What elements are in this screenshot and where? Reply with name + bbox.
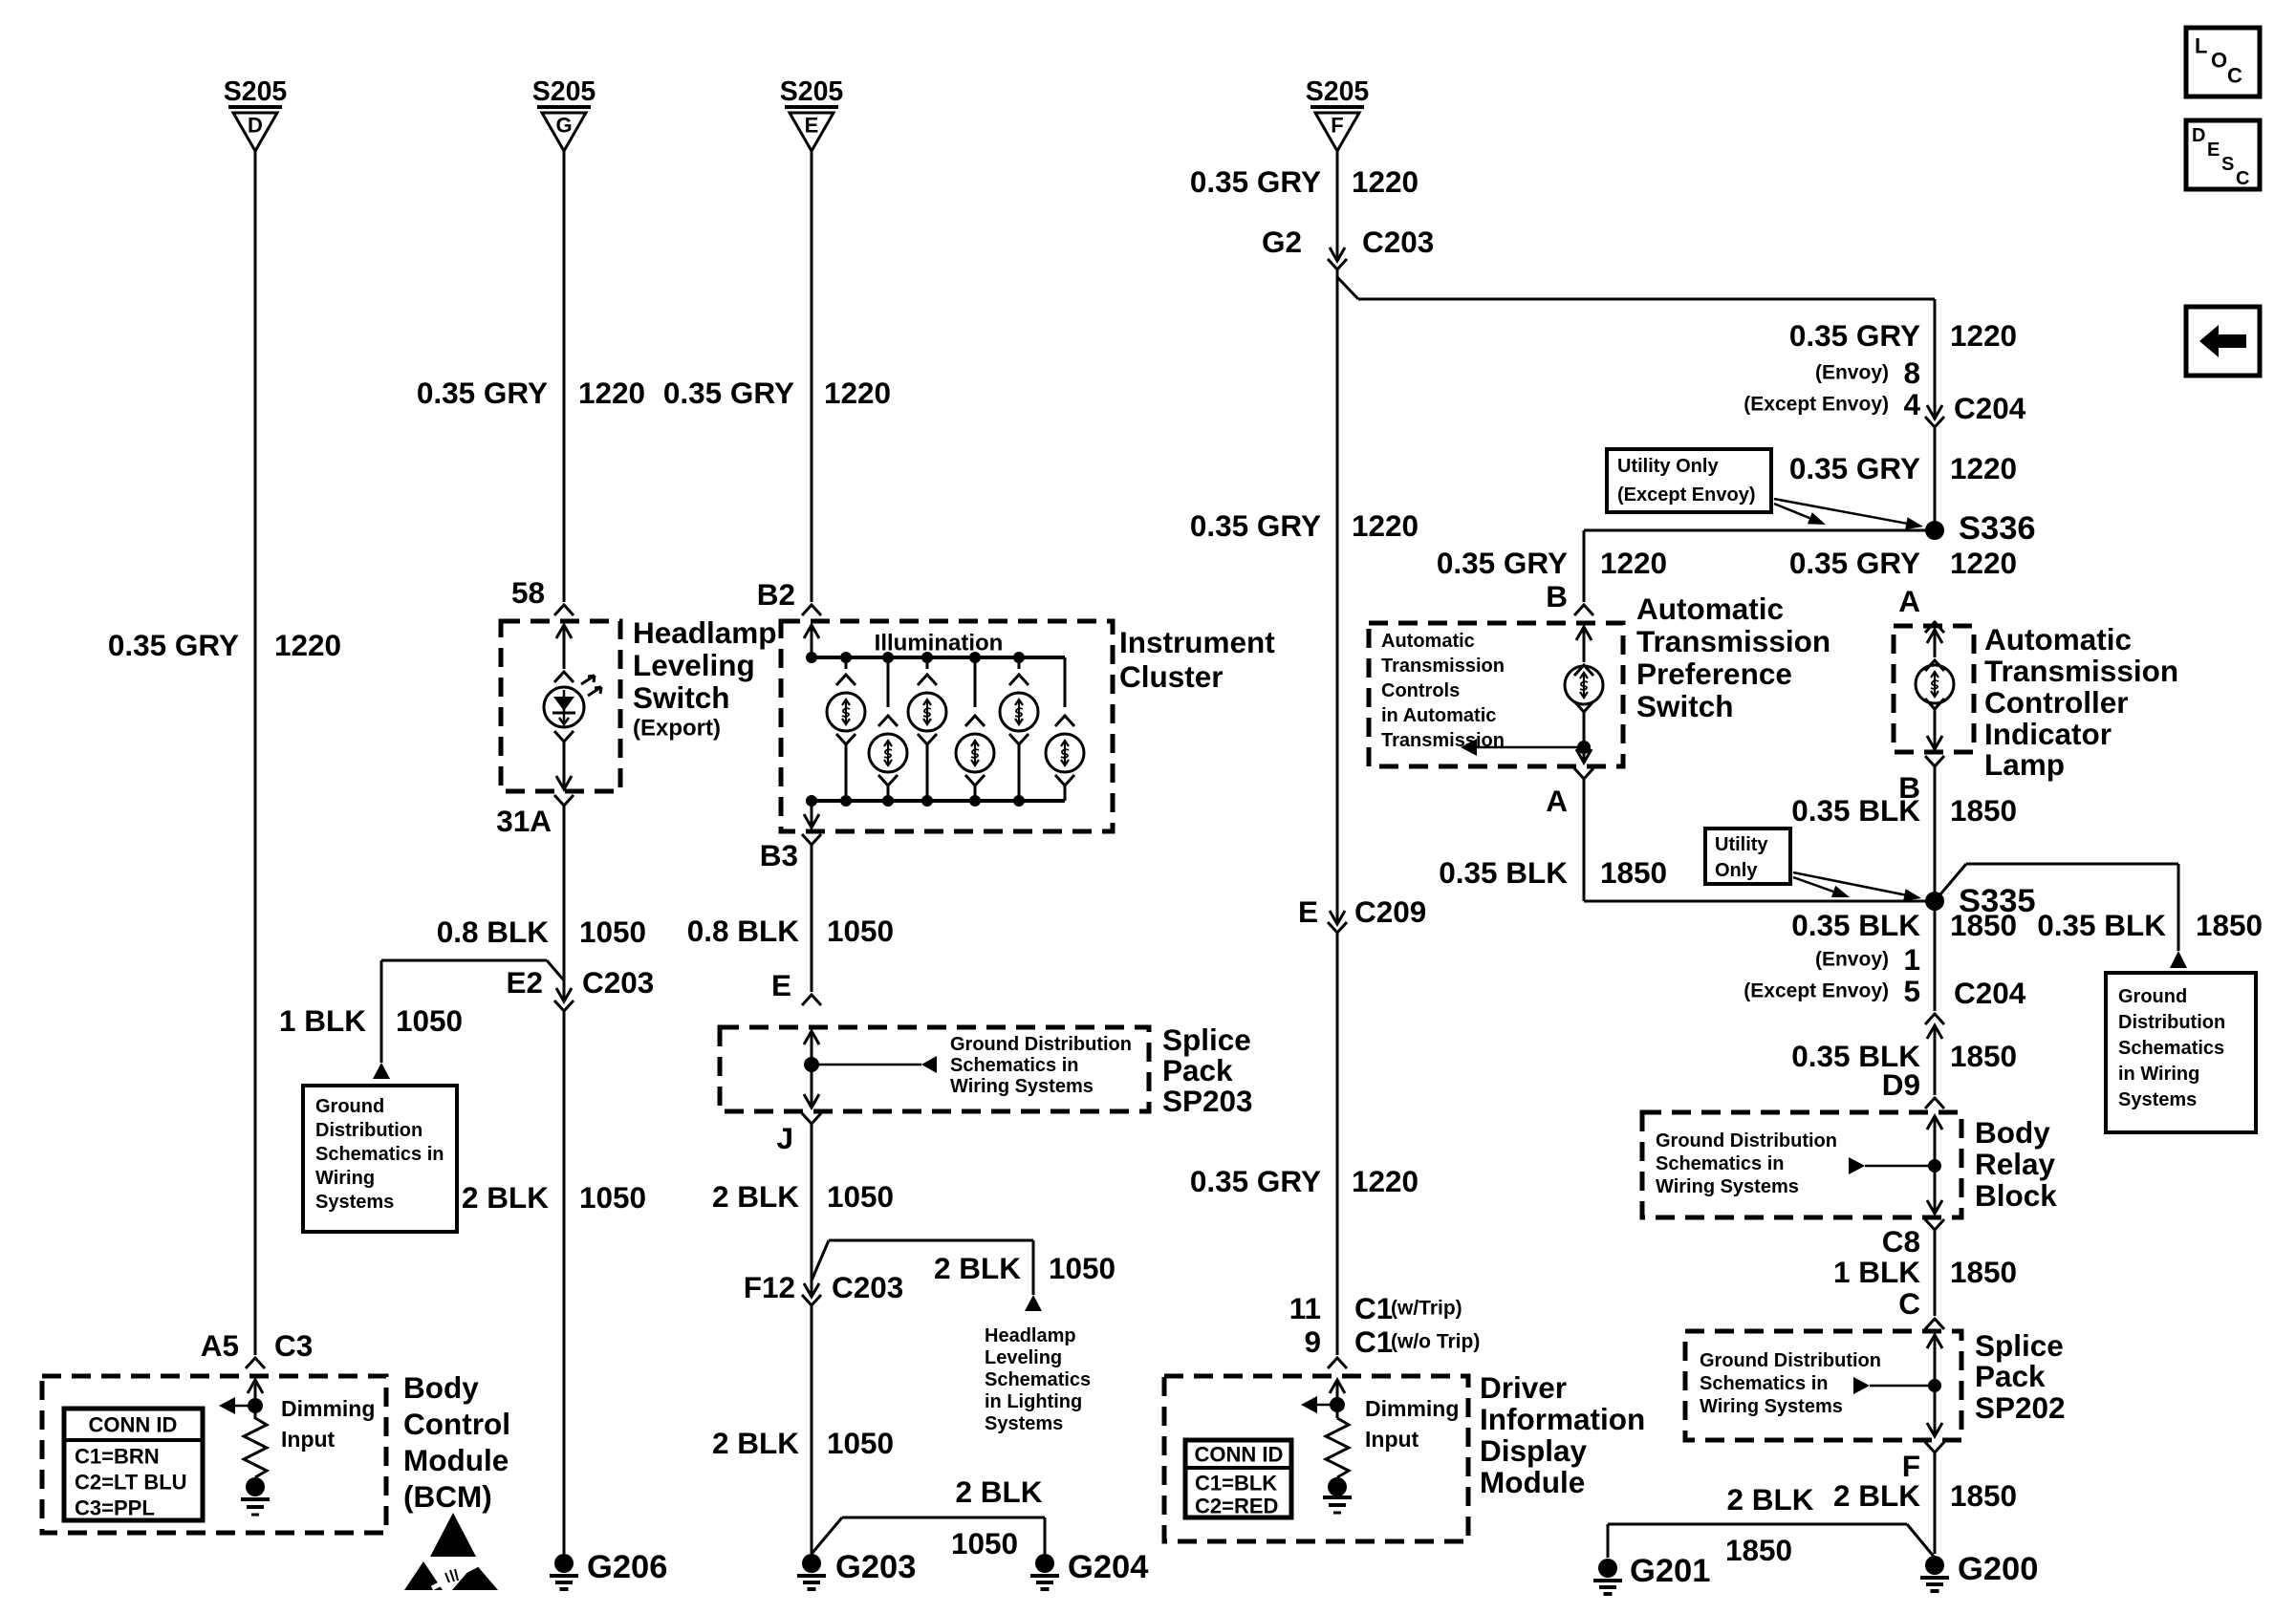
internal ground (DID) — [1328, 1477, 1347, 1496]
wire S336 to preference switch — [1584, 529, 1935, 532]
svg-text:1220: 1220 — [1950, 451, 2017, 485]
svg-text:Dimming: Dimming — [1365, 1396, 1459, 1421]
svg-text:0.35 BLK: 0.35 BLK — [2037, 908, 2166, 942]
svg-text:Schematics in: Schematics in — [950, 1055, 1079, 1076]
svg-text:0.35 GRY: 0.35 GRY — [1437, 546, 1568, 580]
svg-text:Transmission: Transmission — [1984, 654, 2178, 688]
wire branch G203 to G204 — [812, 1517, 842, 1554]
wire C204 to body relay block 0.35 BLK 1850 — [1934, 1025, 1937, 1095]
svg-text:1050: 1050 — [827, 1179, 894, 1214]
resistor dimming input (BCM) — [244, 1418, 267, 1477]
svg-text:Wiring Systems: Wiring Systems — [950, 1076, 1094, 1097]
note box Utility Only (Except Envoy) — [1607, 449, 1771, 512]
svg-text:Ground Distribution: Ground Distribution — [1700, 1350, 1881, 1371]
svg-text:Display: Display — [1480, 1433, 1588, 1468]
svg-text:C3: C3 — [274, 1328, 313, 1363]
junction dot cluster bottom bus x885 — [840, 795, 852, 807]
component box Automatic Transmission Controller Indicator Lamp — [1894, 626, 1974, 752]
connector chevron at BCM entry — [246, 1358, 265, 1368]
wire branch G201 to G200 — [1608, 1523, 1907, 1526]
svg-text:G: G — [555, 114, 572, 138]
svg-text:1220: 1220 — [824, 376, 891, 410]
svg-text:Only: Only — [1715, 860, 1758, 881]
svg-text:CONN ID: CONN ID — [89, 1413, 178, 1437]
svg-text:Automatic: Automatic — [1636, 592, 1784, 626]
reference box Ground Distribution Schematics in Wiring Systems (G branch) — [303, 1086, 457, 1232]
svg-text:Splice: Splice — [1162, 1022, 1251, 1057]
wire headlamp switch internal upper — [563, 625, 566, 669]
svg-text:2 BLK: 2 BLK — [712, 1179, 799, 1214]
wire S335 branch to ground distribution reference — [1935, 864, 1966, 901]
svg-text:Wiring Systems: Wiring Systems — [1656, 1176, 1799, 1197]
wire G column 2 BLK 1050 — [563, 1011, 566, 1554]
svg-text:0.8 BLK: 0.8 BLK — [687, 914, 800, 948]
connector chevron pin F (SP202) — [1925, 1442, 1944, 1453]
svg-text:2 BLK: 2 BLK — [462, 1180, 549, 1215]
svg-text:Ground Distribution: Ground Distribution — [950, 1034, 1132, 1055]
svg-text:Indicator: Indicator — [1984, 717, 2112, 751]
svg-text:Schematics in: Schematics in — [1700, 1373, 1829, 1394]
svg-text:2 BLK: 2 BLK — [1726, 1482, 1813, 1517]
svg-text:Controller: Controller — [1984, 685, 2129, 720]
in-line connector C203 (G column) — [556, 988, 572, 1001]
svg-text:Systems: Systems — [315, 1192, 394, 1213]
reference arrow ground distribution (SP202) — [1853, 1377, 1870, 1394]
svg-text:2 BLK: 2 BLK — [934, 1251, 1021, 1285]
svg-text:Pack: Pack — [1975, 1359, 2046, 1393]
svg-text:0.35 BLK: 0.35 BLK — [1791, 793, 1920, 828]
svg-text:CONN ID: CONN ID — [1195, 1443, 1284, 1467]
svg-text:G200: G200 — [1958, 1551, 2038, 1587]
component box Body Relay Block — [1642, 1112, 1961, 1217]
svg-text:Transmission: Transmission — [1636, 624, 1830, 658]
legend box back-arrow — [2186, 307, 2260, 376]
svg-text:11: 11 — [1289, 1291, 1321, 1325]
connector chevron pin J — [802, 1113, 821, 1124]
junction dot cluster top bus x929 — [882, 652, 894, 663]
connector chevron pin B3 — [802, 834, 821, 845]
connector chevron pin A (indicator lamp) — [1925, 622, 1944, 633]
illumination lamp 2 (low) — [887, 657, 890, 707]
svg-text:1 BLK: 1 BLK — [279, 1003, 366, 1038]
wire F column lower 0.35 GRY 1220 — [1336, 933, 1339, 1355]
svg-text:1850: 1850 — [1950, 908, 2017, 942]
svg-text:1850: 1850 — [1950, 793, 2017, 828]
wire S335 down 0.35 BLK 1850 — [1934, 901, 1937, 1011]
svg-text:E: E — [771, 968, 791, 1002]
wire indicator lamp to S335 0.35 BLK 1850 — [1934, 764, 1937, 901]
svg-text:1220: 1220 — [1352, 164, 1419, 199]
svg-text:Illumination: Illumination — [875, 631, 1004, 656]
illumination lamp 4 (low) — [974, 657, 977, 707]
svg-text:E: E — [2207, 140, 2220, 161]
svg-text:C203: C203 — [582, 965, 654, 1000]
svg-text:in Automatic: in Automatic — [1381, 705, 1496, 726]
svg-text:(w/Trip): (w/Trip) — [1391, 1298, 1462, 1320]
svg-text:C1: C1 — [1354, 1324, 1393, 1359]
svg-text:58: 58 — [511, 575, 545, 610]
splice pack box SP203 — [720, 1027, 1149, 1111]
ground G203 — [797, 1554, 826, 1589]
svg-text:C: C — [2227, 64, 2242, 88]
legend box LOC — [2186, 28, 2260, 97]
svg-text:J: J — [776, 1121, 793, 1155]
svg-text:1850: 1850 — [1725, 1533, 1792, 1567]
svg-text:Headlamp: Headlamp — [985, 1325, 1076, 1346]
wire preference switch to S335 — [1583, 779, 1586, 901]
connector chevron at DID entry — [1328, 1358, 1347, 1368]
ground G206 — [550, 1554, 578, 1589]
svg-text:1: 1 — [1903, 942, 1920, 977]
wire body relay to SP202 1 BLK 1850 — [1934, 1230, 1937, 1316]
connector chevron pin B (indicator lamp) — [1925, 756, 1944, 766]
svg-text:Input: Input — [1365, 1427, 1419, 1452]
svg-text:E2: E2 — [506, 965, 543, 1000]
lamp preference switch — [1565, 666, 1603, 704]
svg-text:Automatic: Automatic — [1984, 622, 2132, 656]
svg-text:Switch: Switch — [633, 680, 730, 715]
wire BCM internal dimming input — [254, 1380, 257, 1419]
svg-text:Schematics: Schematics — [985, 1369, 1091, 1390]
svg-text:Distribution: Distribution — [315, 1120, 422, 1141]
wire D column 0.35 GRY 1220 — [254, 151, 257, 1355]
svg-text:Wiring Systems: Wiring Systems — [1700, 1396, 1843, 1417]
illumination lamp 3 (high) — [926, 657, 929, 669]
wire headlamp switch internal lower — [554, 731, 574, 742]
ground G201 — [1593, 1559, 1622, 1594]
svg-text:1850: 1850 — [1950, 1478, 2017, 1513]
svg-text:(Envoy): (Envoy) — [1815, 362, 1889, 384]
internal ground (BCM) — [246, 1477, 265, 1496]
wire cluster feed — [811, 625, 813, 657]
svg-text:G204: G204 — [1068, 1549, 1148, 1585]
svg-text:Ground Distribution: Ground Distribution — [1656, 1130, 1837, 1151]
svg-text:0.8 BLK: 0.8 BLK — [437, 915, 550, 949]
svg-text:1050: 1050 — [396, 1003, 463, 1038]
svg-text:Body: Body — [1975, 1115, 2050, 1150]
svg-text:Dimming: Dimming — [281, 1396, 375, 1421]
wire E column 2 BLK 1050 upper — [811, 1124, 813, 1295]
svg-text:Utility Only: Utility Only — [1617, 456, 1719, 477]
svg-text:(Except Envoy): (Except Envoy) — [1744, 394, 1889, 416]
table CONN ID (BCM) — [64, 1409, 203, 1520]
resistor dimming input (DID) — [1326, 1418, 1349, 1477]
svg-text:1050: 1050 — [827, 1426, 894, 1460]
svg-text:0.35 GRY: 0.35 GRY — [1789, 546, 1920, 580]
junction dot body relay — [1928, 1159, 1941, 1173]
svg-text:SP203: SP203 — [1162, 1084, 1253, 1118]
component box Automatic Transmission Preference Switch — [1369, 623, 1623, 766]
dimming input direction arrow (BCM) — [235, 1405, 255, 1408]
LED symbol headlamp leveling switch — [544, 687, 584, 727]
junction dot preference switch output — [1577, 741, 1591, 754]
svg-text:5: 5 — [1903, 974, 1920, 1008]
wire SP202 to ground G200 2 BLK 1850 — [1934, 1453, 1937, 1554]
svg-text:1220: 1220 — [1352, 508, 1419, 543]
svg-text:Switch: Switch — [1636, 689, 1734, 723]
in-line connector C204 (lower) — [1925, 1014, 1944, 1024]
illumination lamp 1 (high) — [845, 657, 848, 669]
svg-text:Control: Control — [403, 1407, 510, 1441]
junction dot cluster bottom bus x1020 — [969, 795, 981, 807]
light arrows on LED — [581, 676, 595, 684]
module box Body Control Module (BCM) — [42, 1376, 386, 1533]
splice S335 — [1925, 892, 1944, 911]
svg-text:C203: C203 — [1362, 225, 1434, 259]
connector chevron pin D9 — [1925, 1098, 1944, 1108]
svg-text:1850: 1850 — [1600, 855, 1667, 890]
node dimming input junction (BCM) — [248, 1398, 263, 1413]
connector chevron pin 31A — [554, 795, 574, 806]
junction dot SP203 — [804, 1057, 819, 1072]
svg-text:0.35 GRY: 0.35 GRY — [663, 376, 794, 410]
svg-text:1220: 1220 — [274, 628, 341, 662]
svg-text:F: F — [1331, 114, 1343, 138]
svg-text:1 BLK: 1 BLK — [1833, 1255, 1920, 1289]
svg-text:0.35 GRY: 0.35 GRY — [108, 628, 239, 662]
svg-text:B2: B2 — [757, 577, 795, 612]
svg-text:1220: 1220 — [578, 376, 645, 410]
junction dot cluster bottom bus x1066 — [1013, 795, 1025, 807]
svg-text:(Export): (Export) — [633, 716, 721, 742]
wire preference switch internal lower — [1574, 701, 1593, 712]
connector chevron pin A (preference switch) — [1574, 768, 1593, 779]
svg-text:(Except Envoy): (Except Envoy) — [1744, 980, 1889, 1002]
svg-text:Schematics in: Schematics in — [1656, 1153, 1785, 1174]
in-line connector C209 (F column) — [1330, 911, 1345, 924]
svg-text:0.35 GRY: 0.35 GRY — [1789, 318, 1920, 353]
svg-text:Headlamp: Headlamp — [633, 615, 777, 650]
svg-text:Information: Information — [1480, 1402, 1645, 1436]
svg-text:1050: 1050 — [827, 914, 894, 948]
wire G column upper 0.35 GRY 1220 — [563, 151, 566, 602]
svg-text:0.35 BLK: 0.35 BLK — [1439, 855, 1568, 890]
splice connector S205 triangle D — [228, 107, 282, 151]
svg-text:1850: 1850 — [1950, 1255, 2017, 1289]
wire indicator lamp internal lower — [1925, 699, 1944, 709]
svg-text:O: O — [2211, 49, 2227, 73]
svg-text:D: D — [248, 114, 263, 138]
connector chevron pin 58 — [554, 605, 574, 615]
wire indicator lamp internal upper — [1934, 630, 1937, 657]
ground G204 — [1030, 1554, 1059, 1589]
svg-text:1220: 1220 — [1600, 546, 1667, 580]
svg-text:G206: G206 — [587, 1549, 667, 1585]
svg-text:Ground: Ground — [315, 1096, 384, 1117]
svg-text:A: A — [1898, 584, 1920, 618]
svg-text:S: S — [2221, 154, 2234, 175]
svg-text:C2=RED: C2=RED — [1195, 1495, 1278, 1518]
svg-text:Module: Module — [1480, 1465, 1585, 1499]
wire branch to headlamp leveling reference — [812, 1240, 829, 1280]
wire body relay internal — [1934, 1116, 1937, 1214]
svg-text:(Envoy): (Envoy) — [1815, 949, 1889, 971]
svg-text:Lamp: Lamp — [1984, 747, 2065, 782]
svg-text:S205: S205 — [532, 76, 596, 107]
svg-text:A: A — [1546, 784, 1568, 818]
svg-text:31A: 31A — [496, 804, 552, 838]
connector chevron pin B (preference switch) — [1574, 605, 1593, 615]
svg-text:S205: S205 — [1306, 76, 1370, 107]
wire right column to S336 — [1934, 427, 1937, 530]
svg-text:C204: C204 — [1954, 976, 2026, 1010]
svg-text:2 BLK: 2 BLK — [712, 1426, 799, 1460]
svg-text:Schematics in: Schematics in — [315, 1144, 444, 1165]
svg-text:1220: 1220 — [1950, 546, 2017, 580]
svg-text:Utility: Utility — [1715, 834, 1768, 855]
svg-text:0.35 BLK: 0.35 BLK — [1791, 908, 1920, 942]
svg-text:G203: G203 — [835, 1549, 916, 1585]
svg-text:Instrument: Instrument — [1119, 625, 1275, 659]
svg-text:B: B — [1546, 579, 1568, 613]
node dimming input junction (DID) — [1330, 1397, 1345, 1412]
ground G200 — [1920, 1556, 1949, 1591]
svg-text:(BCM): (BCM) — [403, 1479, 492, 1514]
svg-text:SP202: SP202 — [1975, 1390, 2066, 1425]
in-line connector C203 (F column) — [1330, 247, 1345, 261]
connector chevron pin C — [1925, 1319, 1944, 1329]
svg-text:E: E — [805, 114, 819, 138]
reference arrow Ground Distribution (SP203) — [812, 1064, 921, 1066]
svg-text:Splice: Splice — [1975, 1328, 2064, 1363]
lamp automatic transmission controller indicator — [1916, 665, 1954, 703]
wire G column 0.8 BLK 1050 — [563, 806, 566, 1000]
junction dot cluster bottom bus x970 — [921, 795, 933, 807]
reference arrow to transmission controls text — [1477, 746, 1584, 749]
legend box DESC — [2186, 120, 2260, 189]
wire F column below C203 — [1336, 269, 1339, 922]
dimming input direction arrow (DID) — [1317, 1404, 1337, 1407]
svg-text:1050: 1050 — [579, 915, 646, 949]
wire cluster exit — [811, 801, 813, 828]
wire DID internal dimming input — [1336, 1380, 1339, 1418]
svg-text:Leveling: Leveling — [985, 1347, 1062, 1368]
pointer arrows Utility Only to S336 — [1774, 504, 1809, 518]
svg-text:Relay: Relay — [1975, 1147, 2056, 1181]
svg-text:B3: B3 — [760, 838, 798, 872]
svg-text:9: 9 — [1304, 1324, 1321, 1359]
svg-text:in Wiring: in Wiring — [2118, 1064, 2199, 1085]
junction dot cluster bottom bus feed — [806, 795, 817, 807]
svg-text:0.35 GRY: 0.35 GRY — [1190, 1164, 1321, 1198]
wire branch F to right column — [1337, 277, 1358, 299]
svg-text:C1=BRN: C1=BRN — [75, 1445, 160, 1469]
reference box Ground Distribution Schematics in Wiring Systems (right) — [2106, 973, 2256, 1132]
svg-text:Controls: Controls — [1381, 680, 1460, 701]
junction dot cluster top bus feed — [806, 652, 817, 663]
svg-text:C203: C203 — [832, 1270, 903, 1304]
svg-text:S205: S205 — [224, 76, 288, 107]
wire resistor to internal ground (DID) — [1336, 1477, 1339, 1487]
reference arrow ground distribution (body relay) — [1849, 1157, 1865, 1174]
wire resistor to internal ground (BCM) — [254, 1477, 257, 1487]
junction dot cluster top bus x1020 — [969, 652, 981, 663]
note box Utility Only (small) — [1705, 829, 1790, 884]
svg-text:A5: A5 — [201, 1328, 239, 1363]
svg-text:Wiring: Wiring — [315, 1168, 375, 1189]
svg-text:Driver: Driver — [1480, 1370, 1567, 1405]
svg-text:L: L — [2195, 34, 2207, 58]
wire E column 0.8 BLK 1050 — [811, 845, 813, 992]
svg-text:2 BLK: 2 BLK — [1833, 1478, 1920, 1513]
ESD sensitivity symbol (BCM) — [430, 1513, 476, 1557]
connector chevron pin B2 — [802, 605, 821, 615]
svg-text:Transmission: Transmission — [1381, 656, 1505, 677]
junction dot cluster top bus x1066 — [1013, 652, 1025, 663]
svg-text:C1: C1 — [1354, 1291, 1393, 1325]
svg-text:in Lighting: in Lighting — [985, 1391, 1082, 1412]
svg-text:C2=LT BLU: C2=LT BLU — [75, 1471, 187, 1495]
svg-text:C209: C209 — [1354, 894, 1426, 929]
wire F column top 0.35 GRY 1220 — [1336, 151, 1339, 259]
splice connector S205 triangle E — [785, 107, 838, 151]
svg-text:0.35 GRY: 0.35 GRY — [1190, 508, 1321, 543]
wire E column 2 BLK 1050 lower — [811, 1305, 813, 1554]
connector chevron pin E — [802, 995, 821, 1005]
svg-text:Systems: Systems — [2118, 1089, 2197, 1110]
svg-text:1220: 1220 — [1950, 318, 2017, 353]
svg-text:Systems: Systems — [985, 1413, 1063, 1434]
svg-text:Input: Input — [281, 1427, 336, 1452]
svg-text:0.35 GRY: 0.35 GRY — [1789, 451, 1920, 485]
svg-text:G2: G2 — [1262, 225, 1302, 259]
module box Driver Information Display Module — [1164, 1376, 1468, 1541]
svg-text:Pack: Pack — [1162, 1053, 1233, 1087]
connector chevron pin C8 — [1925, 1219, 1944, 1230]
in-line connector C204 (upper) — [1927, 405, 1942, 419]
splice S336 — [1925, 521, 1944, 540]
svg-text:(w/o Trip): (w/o Trip) — [1391, 1331, 1480, 1353]
svg-text:C3=PPL: C3=PPL — [75, 1496, 155, 1520]
svg-text:E: E — [1298, 894, 1318, 929]
table CONN ID (DID) — [1185, 1440, 1291, 1517]
svg-text:4: 4 — [1903, 387, 1920, 421]
svg-text:(Except Envoy): (Except Envoy) — [1617, 484, 1755, 506]
svg-text:1050: 1050 — [1049, 1251, 1116, 1285]
component box Headlamp Leveling Switch — [501, 621, 620, 791]
in-line connector C203 (E column) — [804, 1283, 819, 1297]
wire SP202 internal — [1934, 1335, 1937, 1436]
wire preference switch internal upper — [1583, 627, 1586, 662]
svg-text:Body: Body — [403, 1370, 479, 1405]
svg-text:1050: 1050 — [951, 1526, 1018, 1560]
svg-text:C1=BLK: C1=BLK — [1195, 1472, 1277, 1496]
wire E column upper 0.35 GRY 1220 — [811, 151, 813, 602]
junction dot cluster top bus x885 — [840, 652, 852, 663]
svg-text:C: C — [1898, 1286, 1920, 1321]
svg-text:1850: 1850 — [2196, 908, 2263, 942]
svg-text:2 BLK: 2 BLK — [955, 1474, 1042, 1509]
svg-text:Cluster: Cluster — [1119, 659, 1224, 694]
svg-text:0.35 GRY: 0.35 GRY — [1190, 164, 1321, 199]
reference arrow into headlamp leveling schematics — [1025, 1295, 1042, 1311]
svg-text:Automatic: Automatic — [1381, 631, 1475, 652]
svg-text:Module: Module — [403, 1443, 509, 1477]
svg-text:Leveling: Leveling — [633, 648, 755, 682]
illumination lamp 5 (high) — [1018, 657, 1021, 669]
svg-text:Ground: Ground — [2118, 986, 2187, 1007]
svg-text:S205: S205 — [780, 76, 844, 107]
svg-text:D9: D9 — [1882, 1067, 1920, 1102]
splice pack box SP202 — [1685, 1331, 1961, 1440]
svg-text:Preference: Preference — [1636, 656, 1792, 691]
bus cluster top — [812, 656, 1065, 659]
svg-text:Block: Block — [1975, 1178, 2057, 1213]
svg-text:1220: 1220 — [1352, 1164, 1419, 1198]
svg-text:1050: 1050 — [579, 1180, 646, 1215]
bus cluster bottom — [812, 799, 1065, 803]
svg-text:Schematics: Schematics — [2118, 1038, 2224, 1059]
